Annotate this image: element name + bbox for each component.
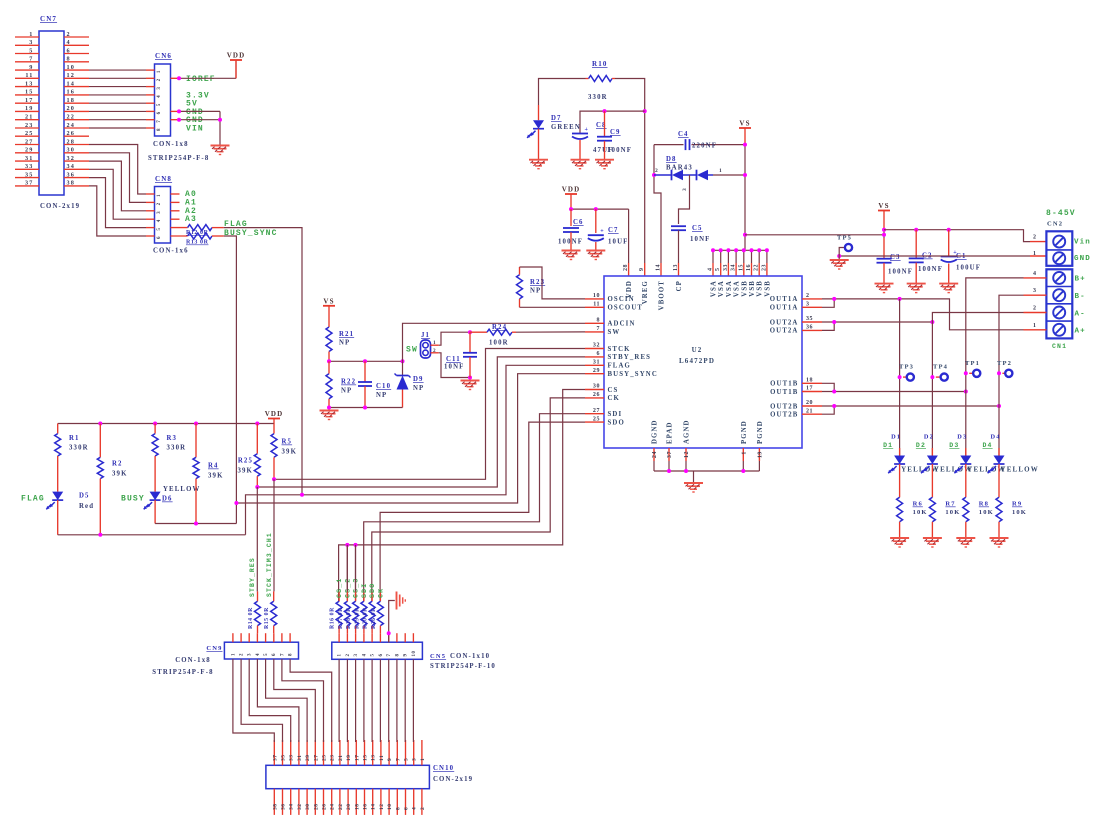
svg-text:CON-2x19: CON-2x19 <box>40 203 80 210</box>
U2 pin 10 OSCIN <box>585 298 604 300</box>
CN10 pin 12 <box>380 789 382 815</box>
svg-text:100UF: 100UF <box>956 265 981 272</box>
svg-text:R4: R4 <box>208 463 219 470</box>
svg-text:17: 17 <box>354 755 360 762</box>
wire CN5 pin 3 to CN10 <box>355 659 357 742</box>
svg-text:39K: 39K <box>112 471 128 478</box>
CN10 pin 30 <box>306 789 308 815</box>
wire CN7 pin 38 to CN8 pin 6 <box>89 186 146 236</box>
CN7 pin 23 <box>15 127 39 129</box>
U2 pin 36 OUT2A <box>802 329 822 331</box>
resistor R12 0R (FLAG) <box>171 227 188 229</box>
svg-text:OUT1A: OUT1A <box>770 296 799 303</box>
svg-text:8: 8 <box>157 128 162 131</box>
svg-text:4: 4 <box>1033 271 1037 277</box>
svg-text:37: 37 <box>667 451 673 458</box>
svg-text:1: 1 <box>1033 251 1037 257</box>
wire BUSY_SYNC from CN8 down to D6 rail <box>212 235 224 237</box>
svg-text:4: 4 <box>412 807 418 810</box>
svg-text:17: 17 <box>806 386 813 392</box>
svg-text:4: 4 <box>67 39 71 46</box>
svg-text:TP5: TP5 <box>837 235 852 242</box>
resistor R16 0R <box>338 591 340 601</box>
svg-text:2: 2 <box>67 31 71 38</box>
svg-text:10: 10 <box>593 293 600 299</box>
svg-text:SW: SW <box>608 329 621 336</box>
wire CN7 to CN6 pin 7 <box>89 119 146 121</box>
svg-text:NP: NP <box>530 288 541 295</box>
svg-text:A-: A- <box>1075 310 1086 318</box>
CN5 pin 5 <box>371 633 373 642</box>
CN10 pin 35 <box>282 740 284 765</box>
resistor R20 0R <box>371 591 373 601</box>
connector CN5 CON-1x10 <box>332 642 423 659</box>
svg-text:2: 2 <box>346 653 351 656</box>
CN7 pin 35 <box>15 177 39 179</box>
svg-text:C3: C3 <box>890 254 901 261</box>
svg-text:6: 6 <box>404 807 410 810</box>
svg-text:11: 11 <box>379 755 385 761</box>
wire VS rail right segment <box>884 230 1030 242</box>
svg-text:R17 0R: R17 0R <box>338 607 344 629</box>
wire CN7 to CN6 pin 2 <box>89 77 146 79</box>
CN7 pin 4 <box>64 44 89 46</box>
svg-text:C7: C7 <box>608 227 619 234</box>
wire STBY_RES vertical to R14 <box>256 487 258 591</box>
svg-text:OUT2A: OUT2A <box>770 319 799 326</box>
svg-text:1: 1 <box>1033 323 1037 329</box>
wire CN7 pin 30 to CN8 pin 2 <box>89 153 146 203</box>
wire C4 left to VBOOT <box>654 145 661 263</box>
svg-text:R26 0R: R26 0R <box>371 607 377 629</box>
U2 pin 20 OUT2B <box>802 405 822 407</box>
CN10 pin 37 <box>273 740 275 765</box>
wire OUT1A to CN1 A+ <box>822 299 1024 330</box>
resistor R3 330R <box>154 424 156 434</box>
svg-text:21: 21 <box>806 408 813 414</box>
svg-text:PGND: PGND <box>741 420 748 444</box>
CN5 pin 8 <box>396 633 398 642</box>
svg-text:CN6: CN6 <box>155 52 172 60</box>
svg-text:2: 2 <box>806 293 810 299</box>
svg-text:C10: C10 <box>376 383 391 390</box>
svg-text:330R: 330R <box>69 445 89 452</box>
CN7 pin 10 <box>64 69 89 71</box>
svg-text:15: 15 <box>363 755 369 762</box>
svg-text:VSB: VSB <box>741 280 748 297</box>
resistor R5 39K <box>273 424 275 434</box>
svg-text:10K: 10K <box>913 509 928 516</box>
CN7 pin 17 <box>15 102 39 104</box>
CN7 pin 15 <box>15 94 39 96</box>
connector CN8 CON-1x6 <box>155 187 171 244</box>
svg-text:36: 36 <box>281 804 287 811</box>
resistor R8 10K <box>963 497 969 522</box>
svg-text:6: 6 <box>379 653 384 656</box>
svg-text:38: 38 <box>272 804 278 811</box>
CN10 pin 36 <box>282 789 284 815</box>
svg-text:31: 31 <box>25 155 34 162</box>
svg-text:25: 25 <box>593 416 600 422</box>
svg-text:100NF: 100NF <box>607 147 632 154</box>
svg-text:R16 0R: R16 0R <box>330 607 336 629</box>
wire STCK_TIM3_CH1 vertical to R15 <box>273 479 275 591</box>
svg-text:EPAD: EPAD <box>667 421 674 444</box>
svg-text:4: 4 <box>362 653 367 656</box>
power symbol VDD (IOREF) <box>230 59 242 61</box>
ground (TP5) <box>838 256 840 260</box>
svg-text:R21: R21 <box>339 331 354 338</box>
svg-text:C11: C11 <box>446 356 461 363</box>
wire CK net L7 <box>372 398 585 601</box>
svg-text:29: 29 <box>25 147 34 154</box>
svg-text:39K: 39K <box>237 468 253 475</box>
svg-text:R8: R8 <box>979 501 989 508</box>
ground (CN6) <box>211 145 230 147</box>
svg-text:16: 16 <box>67 89 76 96</box>
CN10 pin 38 <box>273 789 275 815</box>
svg-text:2: 2 <box>655 168 658 174</box>
svg-text:CN7: CN7 <box>40 15 57 23</box>
U2 pin 27 SDI <box>585 413 604 415</box>
power symbol VS (bulk caps) <box>878 210 890 212</box>
U2 pin 18 OUT1B <box>802 382 822 384</box>
CN9 pin 3 <box>248 633 250 642</box>
svg-text:CON-1x8: CON-1x8 <box>175 657 211 664</box>
svg-text:NP: NP <box>339 340 350 347</box>
svg-text:3: 3 <box>412 758 418 761</box>
svg-text:32: 32 <box>67 155 76 162</box>
svg-text:+: + <box>585 127 589 133</box>
svg-text:28: 28 <box>623 264 629 271</box>
svg-text:7: 7 <box>280 653 285 656</box>
svg-text:33: 33 <box>289 755 295 762</box>
svg-text:OSCOUT: OSCOUT <box>608 305 644 312</box>
svg-text:TP3: TP3 <box>899 364 914 371</box>
svg-text:CK: CK <box>608 395 621 402</box>
wire GND pins to ground <box>171 110 180 112</box>
svg-text:34: 34 <box>731 264 737 271</box>
svg-text:B+: B+ <box>1075 276 1086 284</box>
svg-text:R2: R2 <box>112 461 123 468</box>
U2 pin 37 EPAD <box>668 448 670 461</box>
svg-text:R22: R22 <box>341 379 356 386</box>
U2 pin 24 DGND <box>653 448 655 461</box>
svg-text:7: 7 <box>157 120 162 123</box>
resistor R25 39K <box>256 424 258 454</box>
CN7 pin 11 <box>15 77 39 79</box>
CN7 pin 20 <box>64 110 89 112</box>
svg-text:GND: GND <box>1074 255 1091 263</box>
svg-text:D2: D2 <box>924 434 934 441</box>
svg-text:R1: R1 <box>69 435 80 442</box>
wire J1 pin1 to SW row <box>431 344 439 346</box>
svg-text:220NF: 220NF <box>692 143 717 150</box>
wire CN7 pin 32 to CN8 pin 3 <box>89 161 146 211</box>
svg-text:VREG: VREG <box>642 280 649 304</box>
svg-text:1: 1 <box>157 70 162 73</box>
LED D7 GREEN <box>538 105 540 120</box>
wire OUT1B pins join <box>822 383 834 391</box>
svg-text:Vin: Vin <box>1074 239 1091 247</box>
svg-text:25: 25 <box>25 130 34 137</box>
svg-text:CN10: CN10 <box>433 765 454 772</box>
ground (U2) <box>684 482 703 484</box>
CN10 pin 18 <box>355 789 357 815</box>
CN7 pin 26 <box>64 135 89 137</box>
svg-text:18: 18 <box>806 378 813 384</box>
CN5 pin 7 <box>388 633 390 642</box>
svg-text:FLAG: FLAG <box>608 363 631 370</box>
svg-text:D3: D3 <box>949 442 959 449</box>
svg-text:VSB: VSB <box>749 280 756 297</box>
svg-text:26: 26 <box>593 392 600 398</box>
svg-text:AGND: AGND <box>684 419 691 444</box>
svg-text:4: 4 <box>256 653 261 656</box>
svg-text:16: 16 <box>363 804 369 811</box>
wire CS branch pins 2 3 <box>346 545 348 601</box>
svg-text:OUT2B: OUT2B <box>770 403 798 410</box>
svg-text:OUT2B: OUT2B <box>770 412 798 419</box>
resistor R2 39K <box>99 424 101 458</box>
U2 pin 35 OUT2A <box>802 321 822 323</box>
svg-text:24: 24 <box>330 804 336 811</box>
svg-text:2: 2 <box>157 78 162 81</box>
CN5 pin 3 <box>355 633 357 642</box>
svg-text:22: 22 <box>67 114 76 121</box>
wire OUT2A pins join <box>822 322 834 330</box>
CN7 pin 9 <box>15 69 39 71</box>
svg-text:D6: D6 <box>162 496 173 503</box>
test point TP1 <box>969 372 973 374</box>
wire R10 right down to VREG <box>615 79 645 264</box>
svg-text:5: 5 <box>371 653 376 656</box>
wire CN9 pin 7 to CN10 <box>282 659 324 742</box>
svg-text:VSB: VSB <box>764 280 771 297</box>
wire VS bus to VSA pin <box>712 250 714 263</box>
CN10 pin 26 <box>323 789 325 815</box>
ground (C8) <box>571 159 590 161</box>
wire CN5 pin 7 to CN10 <box>388 659 390 742</box>
CN7 pin 13 <box>15 86 39 88</box>
svg-text:GREEN: GREEN <box>551 124 581 131</box>
svg-text:14: 14 <box>656 264 662 271</box>
svg-text:30: 30 <box>67 147 76 154</box>
CN9 pin 1 <box>232 633 234 642</box>
svg-text:CN5: CN5 <box>430 653 446 660</box>
resistor R19 0R <box>363 591 365 601</box>
CN10 pin 17 <box>355 740 357 765</box>
svg-text:R10: R10 <box>592 60 608 68</box>
wire node to ground rail <box>329 407 403 409</box>
CN5 pin 1 <box>338 633 340 642</box>
svg-text:STCK: STCK <box>608 346 631 353</box>
CN5 pin 4 <box>363 633 365 642</box>
CN10 pin 33 <box>290 740 292 765</box>
svg-text:100NF: 100NF <box>558 239 583 246</box>
svg-text:20: 20 <box>806 400 813 406</box>
svg-text:R19 0R: R19 0R <box>354 607 360 629</box>
CN5 pin 2 <box>346 633 348 642</box>
svg-text:VS: VS <box>323 297 334 305</box>
svg-text:24: 24 <box>652 451 658 458</box>
svg-text:D8: D8 <box>666 156 677 163</box>
svg-text:39K: 39K <box>208 473 224 480</box>
net label A2 <box>171 210 180 212</box>
svg-text:27: 27 <box>593 408 600 414</box>
CN7 pin 7 <box>15 61 39 63</box>
svg-text:D7: D7 <box>551 115 562 122</box>
svg-text:CK: CK <box>377 588 384 598</box>
CN7 pin 22 <box>64 119 89 121</box>
net label A3 <box>171 218 180 220</box>
svg-text:10K: 10K <box>979 509 994 516</box>
svg-text:29: 29 <box>305 755 311 762</box>
svg-text:30: 30 <box>305 804 311 811</box>
svg-text:D5: D5 <box>79 493 90 500</box>
power symbol VS (charge pump) <box>739 127 751 129</box>
CN10 pin 10 <box>388 789 390 815</box>
wire V3 down to D3 <box>965 373 967 455</box>
op-amp U2 L6472PD (driver IC) <box>604 276 802 448</box>
capacitor C9 100NF <box>604 111 606 136</box>
wire OUT1B row <box>822 391 966 393</box>
CN10 pin 11 <box>380 740 382 765</box>
resistor R1 330R <box>57 424 59 434</box>
wire VS bus to VSB pin <box>751 250 753 263</box>
U2 pin 11 OSCOUT <box>585 306 604 308</box>
svg-text:8: 8 <box>67 56 71 63</box>
svg-text:2: 2 <box>1033 306 1037 312</box>
U2 pin 7 SW <box>585 331 604 333</box>
U2 pin 3 OUT1A <box>802 306 822 308</box>
CN10 pin 32 <box>298 789 300 815</box>
svg-text:6: 6 <box>157 236 162 239</box>
test point TP5 <box>839 248 844 257</box>
svg-text:10NF: 10NF <box>690 236 710 243</box>
wire ground rail under U2 <box>654 470 759 472</box>
wire ADCIN to pin 8 <box>403 323 586 361</box>
capacitor C8 47UF <box>572 133 588 135</box>
capacitor C4 220NF <box>654 144 684 146</box>
test point TP3 <box>903 376 907 378</box>
svg-text:3: 3 <box>806 302 810 308</box>
wire CN9 pin 2 to CN10 <box>241 659 282 742</box>
wire VS bus to VSA pin <box>735 250 737 263</box>
svg-text:CS: CS <box>608 387 619 394</box>
svg-text:1: 1 <box>719 168 722 174</box>
resistor R13 0R (BUSY_SYNC) <box>171 235 188 237</box>
capacitor C10 NP <box>364 361 366 382</box>
U2 pin 32 STCK <box>585 348 604 350</box>
CN7 pin 12 <box>64 77 89 79</box>
svg-text:VDD: VDD <box>562 186 581 194</box>
wire CN7 to CN6 pin 8 <box>89 127 146 129</box>
CN10 pin 15 <box>364 740 366 765</box>
svg-text:24: 24 <box>67 122 76 129</box>
resistor R6 10K <box>897 497 903 522</box>
CN10 pin 16 <box>364 789 366 815</box>
svg-text:34: 34 <box>67 163 76 170</box>
wire CN9 pin 6 to CN10 <box>274 659 316 742</box>
svg-text:D2: D2 <box>916 442 926 449</box>
ground (D7) <box>529 159 548 161</box>
svg-text:16: 16 <box>746 264 752 271</box>
CN10 pin 31 <box>298 740 300 765</box>
svg-text:YELLOW: YELLOW <box>1001 466 1039 474</box>
CN7 pin 38 <box>64 185 89 187</box>
svg-text:10: 10 <box>387 804 393 811</box>
ground (CN5 pin7, sideways) <box>396 592 398 610</box>
svg-text:29: 29 <box>593 368 600 374</box>
svg-text:VIN: VIN <box>186 125 204 134</box>
CN9 pin 7 <box>281 633 283 642</box>
svg-text:VS: VS <box>739 120 750 128</box>
power symbol VDD (C6 C7) <box>565 193 577 195</box>
svg-text:3: 3 <box>29 39 33 46</box>
resistor R10 330R <box>586 78 589 80</box>
wire VS bus to VSB pin <box>743 250 745 263</box>
CN10 pin 34 <box>290 789 292 815</box>
CN10 pin 7 <box>396 740 398 765</box>
test point TP4 <box>936 376 941 378</box>
U2 pin 25 SDO <box>585 421 604 423</box>
wire CN9 pin 4 to CN10 <box>257 659 299 742</box>
ground (C6) <box>562 250 581 252</box>
svg-text:R5: R5 <box>282 439 293 446</box>
svg-text:36: 36 <box>806 325 813 331</box>
svg-text:330R: 330R <box>588 94 608 101</box>
CN10 pin 20 <box>347 789 349 815</box>
wire D8 tap to C5 <box>679 175 690 224</box>
svg-text:VSA: VSA <box>711 280 718 297</box>
svg-text:14: 14 <box>371 804 377 811</box>
svg-text:100R: 100R <box>489 340 509 347</box>
svg-text:33: 33 <box>25 163 34 170</box>
svg-text:CN2: CN2 <box>1047 221 1063 228</box>
capacitor C5 10NF <box>671 225 686 227</box>
wire STCK net L1 <box>274 349 585 480</box>
CN7 pin 19 <box>15 110 39 112</box>
svg-text:19: 19 <box>757 451 763 458</box>
svg-text:SDI: SDI <box>361 583 368 598</box>
CN10 pin 23 <box>331 740 333 765</box>
wire CN5 pin 4 to CN10 <box>363 659 365 742</box>
wire CN7 to CN6 pin 4 <box>89 94 146 96</box>
svg-text:YELLOW: YELLOW <box>163 486 201 493</box>
svg-text:STBY_RES: STBY_RES <box>608 354 652 361</box>
svg-text:SW: SW <box>406 346 418 355</box>
CN7 pin 37 <box>15 185 39 187</box>
wire SDO net L5 <box>380 422 585 601</box>
svg-text:32: 32 <box>593 343 600 349</box>
svg-text:OUT1B: OUT1B <box>770 389 798 396</box>
ground (R7) <box>923 537 942 539</box>
svg-text:R13 0R: R13 0R <box>186 240 209 246</box>
resistor R23 NP (OSCIN-OSCOUT) <box>519 267 521 275</box>
U2 pin 6 STBY_RES <box>585 356 604 358</box>
wire CN1 B+ to V3 <box>966 278 1024 373</box>
U2 pin 26 CK <box>585 397 604 399</box>
svg-text:J1: J1 <box>421 332 430 339</box>
svg-text:15: 15 <box>25 89 34 96</box>
wire CN1 B- to V4 <box>999 295 1024 373</box>
svg-text:6: 6 <box>157 111 162 114</box>
svg-text:38: 38 <box>67 180 76 187</box>
wire VS bus to VSB pin <box>766 250 768 263</box>
svg-text:27: 27 <box>25 138 34 145</box>
svg-text:D4: D4 <box>983 442 993 449</box>
